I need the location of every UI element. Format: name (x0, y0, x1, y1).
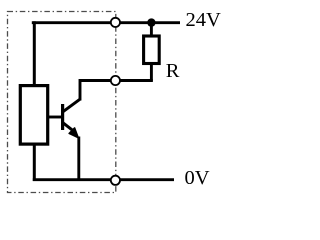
net label 24V (186, 9, 222, 31)
sensor enclosure (dash-dot boundary) (8, 12, 116, 193)
wire: collector up and right to middle terminal (80, 81, 111, 101)
svg-text:24V: 24V (186, 9, 222, 31)
wire: resistor top lead (150, 22, 153, 37)
wire: base connection from sensor element to transistor (49, 116, 62, 119)
wire: bottom 0V rail (33, 178, 174, 181)
svg-text:R: R (166, 60, 180, 82)
wire: resistor bottom lead (150, 64, 153, 82)
sensor element (rectangle) (20, 86, 47, 145)
wire: sensor element bottom lead (33, 144, 36, 181)
wire: left vertical from top rail to sensor element (33, 21, 36, 85)
terminal (bottom, 0V) (111, 176, 120, 185)
wire: top 24V rail (32, 21, 180, 24)
net label 0V (185, 167, 210, 189)
value label R (166, 60, 180, 82)
junction on 24V rail (147, 18, 155, 26)
terminal (middle, output) (111, 76, 120, 85)
resistor R (144, 36, 160, 64)
transistor (NPN) (63, 99, 80, 137)
wire: emitter down to 0V rail (77, 137, 80, 182)
svg-text:0V: 0V (185, 167, 210, 189)
wire: middle rail from terminal to resistor bottom lead (120, 79, 153, 82)
terminal (top, 24V) (111, 18, 120, 27)
